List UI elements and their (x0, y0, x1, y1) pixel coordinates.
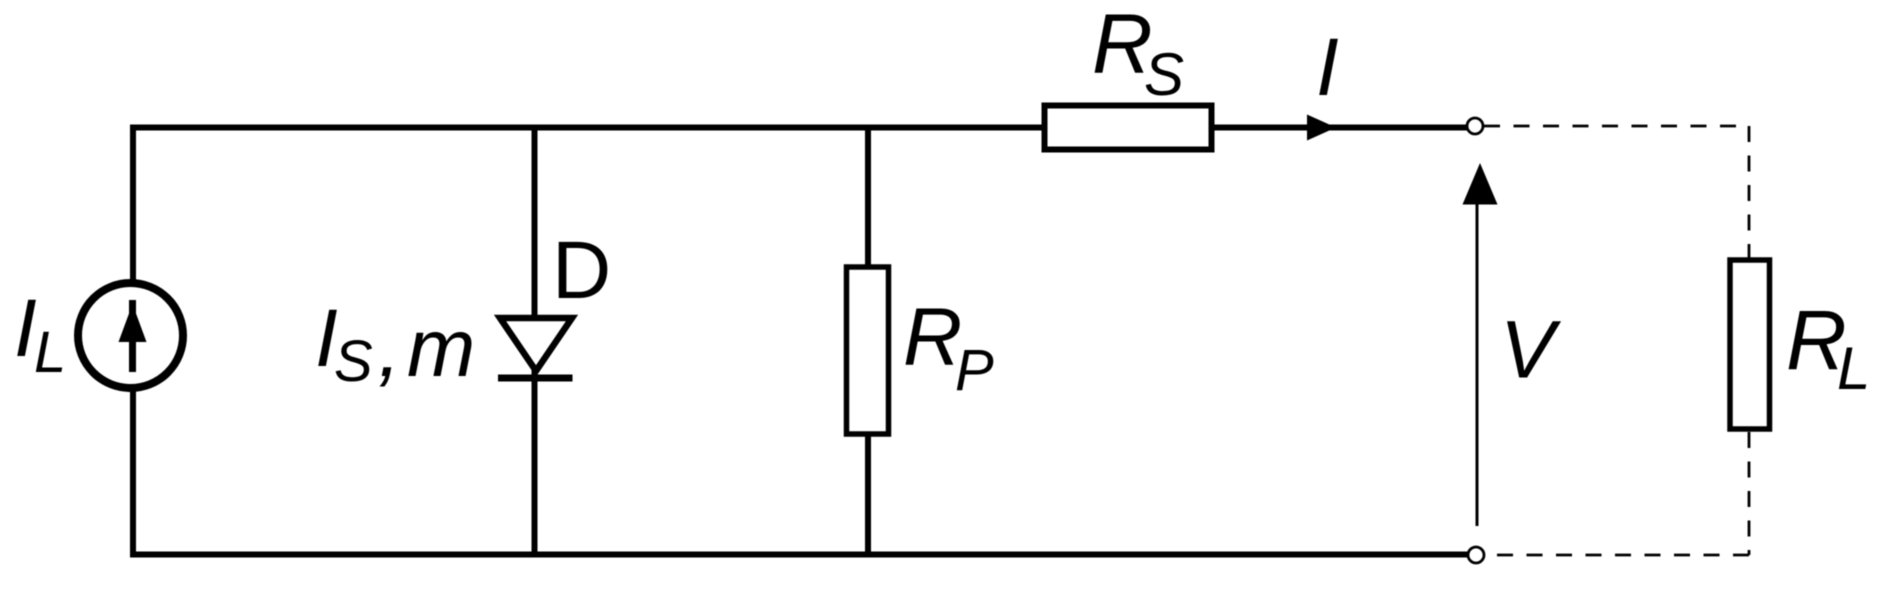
svg-text:D: D (552, 225, 611, 316)
label R_S (1092, 0, 1184, 108)
svg-text:V: V (1500, 305, 1562, 396)
resistor RS (1045, 106, 1212, 150)
resistor RP (847, 267, 889, 434)
label R_P (903, 292, 994, 403)
current arrow I (1307, 115, 1336, 141)
svg-text:L: L (34, 320, 66, 385)
dashed wire right lower (1748, 432, 1751, 555)
wire left (130, 125, 136, 558)
label I_L (14, 283, 66, 385)
label I_S,m (315, 293, 475, 394)
terminal bottom (1468, 547, 1484, 563)
diode D (498, 318, 573, 378)
wire RP branch (865, 125, 871, 558)
svg-text:I: I (1316, 22, 1339, 113)
label V (1500, 305, 1562, 396)
label I (1316, 22, 1339, 113)
svg-text:S: S (334, 329, 373, 394)
terminal top (1467, 118, 1483, 134)
dashed wire top (1484, 125, 1749, 128)
current source IL (78, 283, 183, 388)
wire diode branch (532, 125, 538, 558)
wire bottom (130, 552, 1468, 558)
wire top (130, 125, 1467, 131)
dashed wire right upper (1748, 126, 1751, 258)
svg-text:P: P (955, 338, 994, 403)
svg-text:L: L (1837, 335, 1870, 402)
svg-text:m: m (407, 303, 475, 394)
svg-text:R: R (903, 292, 962, 383)
label R_L (1786, 293, 1870, 402)
svg-text:S: S (1144, 41, 1184, 108)
voltage arrow V (1463, 163, 1498, 526)
label D (552, 225, 611, 316)
resistor RL (1730, 260, 1770, 429)
dashed wire bottom (1485, 554, 1749, 557)
svg-text:,: , (378, 303, 401, 394)
